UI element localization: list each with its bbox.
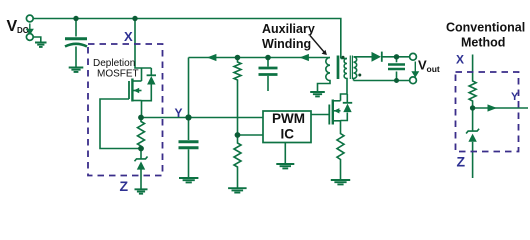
svg-text:Depletion: Depletion (93, 58, 135, 69)
svg-text:X: X (456, 53, 464, 67)
svg-text:Z: Z (120, 178, 129, 194)
svg-text:MOSFET: MOSFET (97, 69, 139, 80)
svg-text:Conventional: Conventional (446, 21, 525, 35)
svg-text:Z: Z (457, 154, 466, 170)
svg-text:Auxiliary: Auxiliary (262, 22, 315, 36)
svg-text:Winding: Winding (262, 37, 311, 51)
svg-text:out: out (427, 64, 440, 74)
svg-text:DC: DC (17, 26, 29, 35)
svg-text:PWM: PWM (272, 111, 305, 126)
svg-text:Y: Y (175, 106, 183, 120)
svg-text:V: V (7, 18, 18, 35)
svg-text:X: X (124, 29, 133, 44)
svg-text:IC: IC (281, 127, 295, 142)
svg-text:Y: Y (511, 91, 519, 103)
svg-text:Method: Method (461, 36, 505, 50)
